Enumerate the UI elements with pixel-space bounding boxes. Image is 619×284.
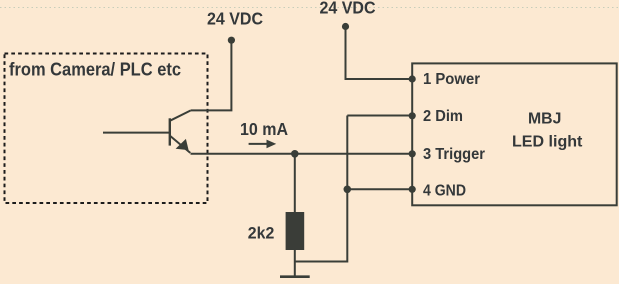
svg-text:4 GND: 4 GND bbox=[423, 183, 466, 200]
svg-text:3 Trigger: 3 Trigger bbox=[423, 146, 485, 163]
wire: 24VDC right to pin 1 Power bbox=[346, 27, 413, 80]
base wire bbox=[103, 132, 170, 134]
svg-text:from Camera/ PLC etc: from Camera/ PLC etc bbox=[9, 59, 181, 79]
svg-text:MBJ: MBJ bbox=[528, 111, 561, 128]
node dot: 24 VDC right supply bbox=[342, 23, 349, 30]
faint dotted top border bbox=[0, 7, 619, 9]
node dot: trigger/resistor junction bbox=[291, 150, 299, 158]
wire: Dim pin stub bbox=[347, 115, 412, 117]
wire: ground net link to Dim/GND line bbox=[295, 116, 348, 262]
svg-text:2k2: 2k2 bbox=[248, 224, 274, 243]
MBJ LED light unit box bbox=[412, 63, 617, 205]
transistor Q1 (NPN, emitter to output) bbox=[103, 110, 191, 152]
wire: 24VDC left down to collector bbox=[191, 40, 232, 110]
emitter arrowhead bbox=[176, 139, 189, 150]
pin 1 dot bbox=[409, 75, 416, 82]
svg-text:1 Power: 1 Power bbox=[423, 71, 480, 88]
wire: GND pin stub bbox=[347, 188, 412, 190]
svg-text:2 Dim: 2 Dim bbox=[423, 108, 463, 125]
pin 3 dot bbox=[409, 150, 416, 157]
svg-text:24 VDC: 24 VDC bbox=[320, 0, 376, 18]
collector lead bbox=[170, 110, 191, 120]
current arrow bbox=[249, 140, 277, 149]
pin 4 dot bbox=[409, 186, 416, 193]
node dot: GND junction bbox=[344, 186, 352, 194]
ground bbox=[280, 275, 310, 278]
dashed enclosure box (from Camera/PLC) bbox=[5, 54, 208, 204]
base bar bbox=[169, 118, 171, 145]
wire: resistor bottom to ground bbox=[294, 250, 296, 277]
svg-text:24 VDC: 24 VDC bbox=[207, 9, 263, 29]
node dot: 24 VDC left supply bbox=[228, 37, 235, 44]
wire: emitter to trigger pin bbox=[191, 153, 413, 155]
svg-text:LED light: LED light bbox=[512, 134, 583, 151]
wire: junction down to resistor bbox=[294, 154, 296, 213]
pin 2 dot bbox=[409, 112, 416, 119]
resistor 2k2 bbox=[286, 212, 305, 250]
emitter lead bbox=[170, 136, 191, 153]
svg-text:10 mA: 10 mA bbox=[240, 119, 288, 139]
